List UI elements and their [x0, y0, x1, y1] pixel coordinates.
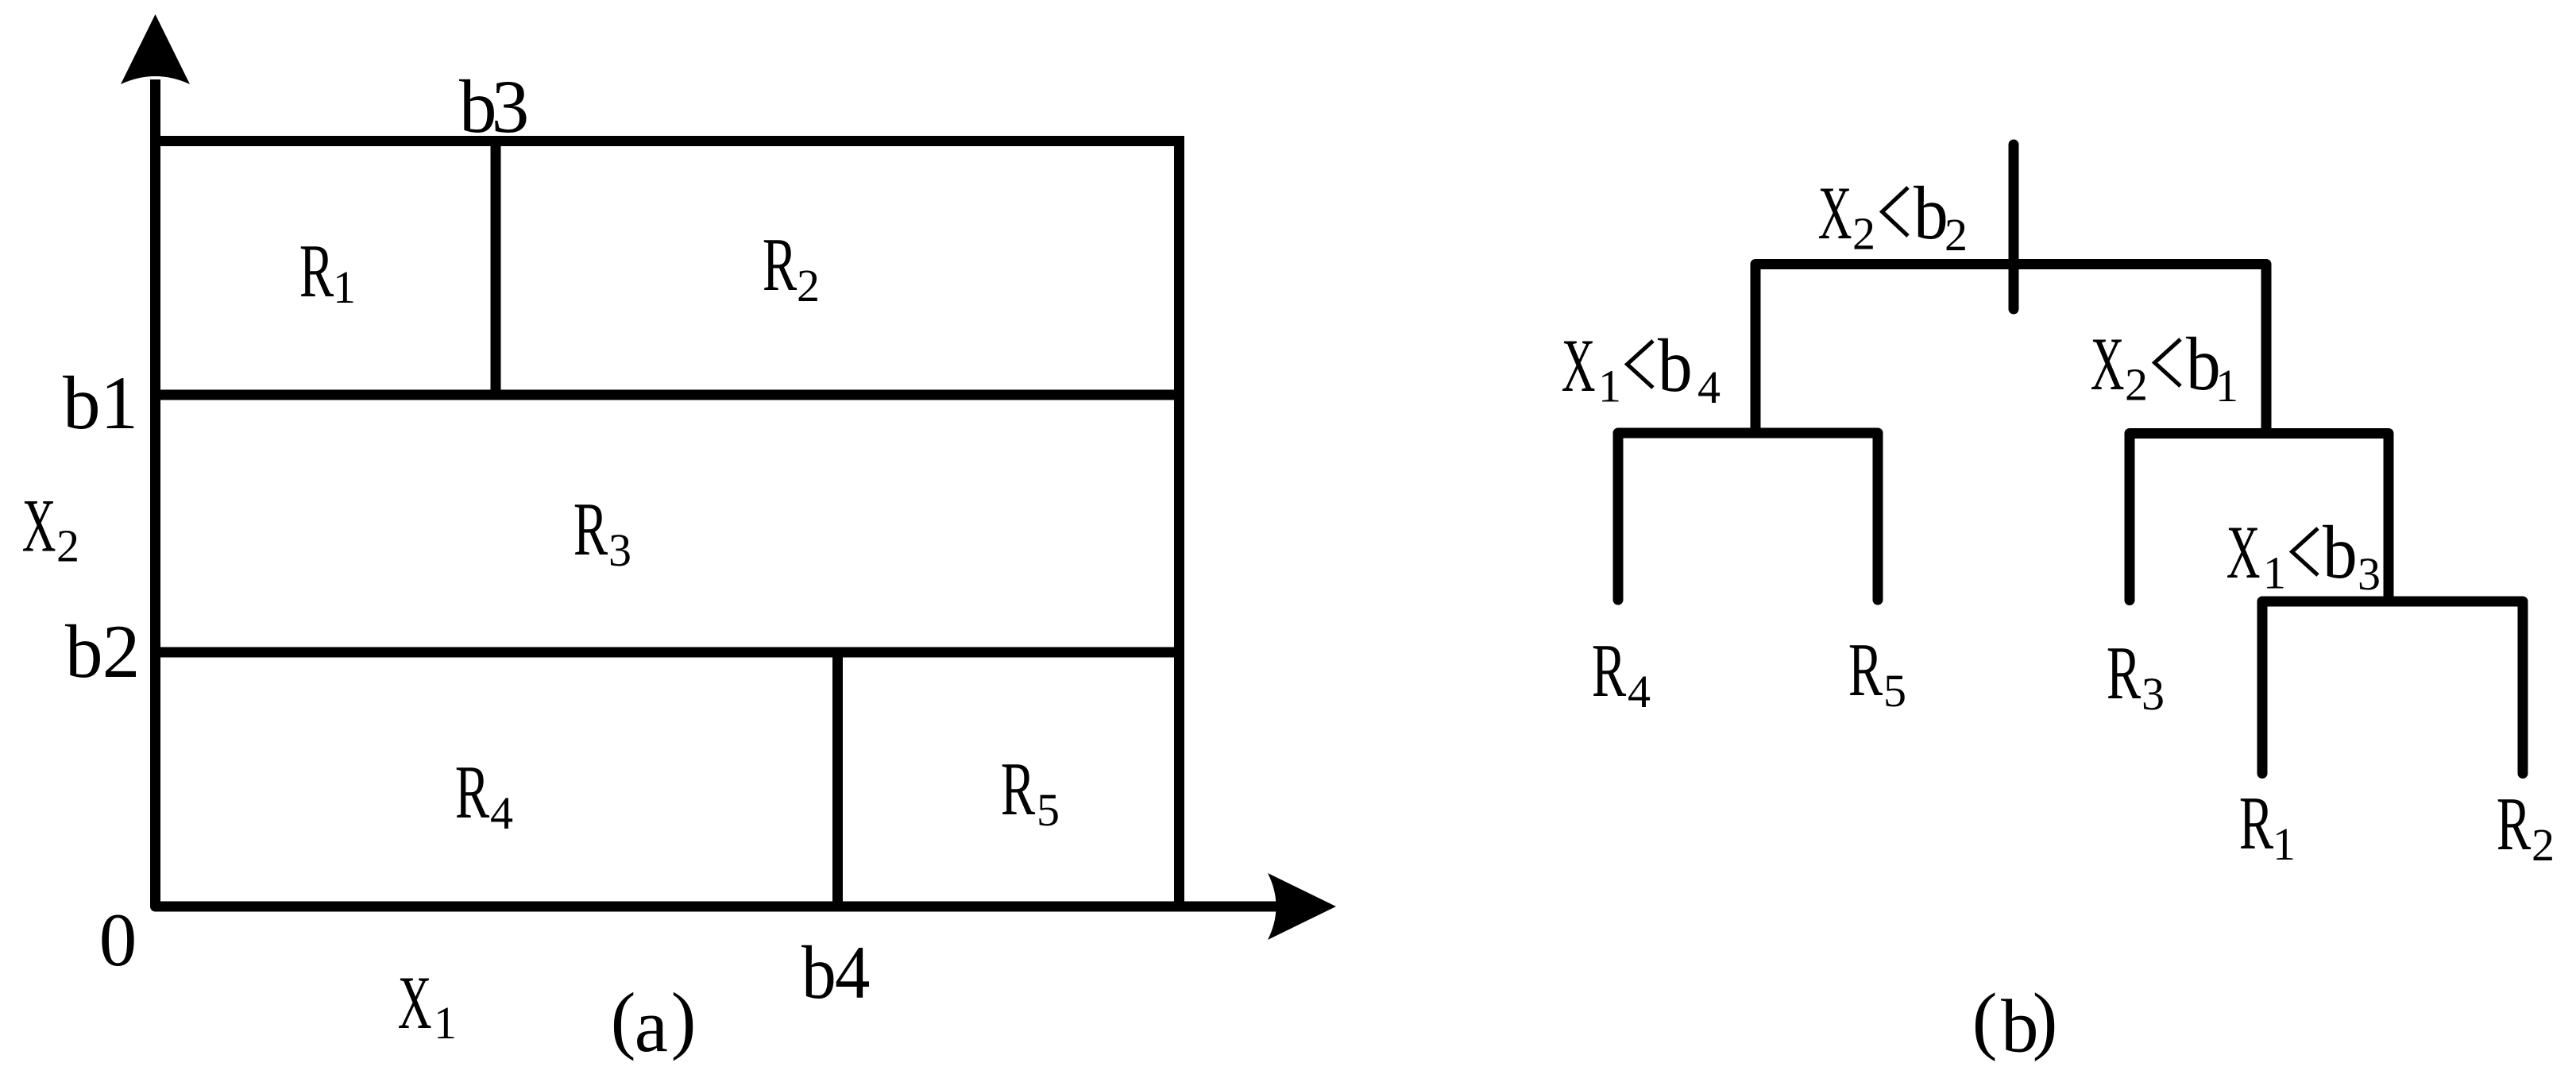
svg-text:R: R — [1592, 629, 1627, 713]
svg-text:R: R — [299, 230, 334, 313]
svg-text:1: 1 — [434, 997, 457, 1049]
svg-text:b: b — [65, 609, 103, 694]
svg-text:1: 1 — [1598, 361, 1621, 412]
svg-text:): ) — [671, 977, 697, 1061]
svg-text:5: 5 — [1883, 665, 1906, 717]
tree third-level bar X1&lt;b3 with leaf drops to R1 and R2 — [2262, 601, 2523, 774]
svg-text:X: X — [2091, 323, 2125, 407]
partition outer boundary: top edge and right edge — [156, 141, 1180, 907]
svg-text:4: 4 — [490, 787, 513, 839]
svg-text:4: 4 — [1628, 666, 1651, 717]
svg-text:5: 5 — [1037, 784, 1060, 836]
svg-text:(: ( — [611, 977, 636, 1061]
svg-text:R: R — [2497, 783, 2532, 866]
X2 axis (vertical) and X1 axis (horizontal) — [156, 79, 1281, 906]
svg-text:1: 1 — [2273, 818, 2296, 870]
svg-text:R: R — [1001, 748, 1036, 831]
svg-text:2: 2 — [2125, 359, 2148, 411]
tree first split bar X2&lt;b2 with left and right branch drops — [1755, 265, 2266, 434]
svg-text:2: 2 — [102, 609, 141, 694]
svg-text:3: 3 — [2142, 668, 2165, 720]
svg-text:(: ( — [1972, 978, 1998, 1062]
svg-text:b: b — [2323, 511, 2358, 594]
svg-text:b: b — [801, 931, 836, 1015]
svg-text:R: R — [1848, 628, 1883, 712]
svg-text:2: 2 — [797, 260, 820, 311]
svg-text:2: 2 — [2532, 819, 2555, 871]
svg-text:1: 1 — [333, 261, 356, 313]
svg-text:4: 4 — [1697, 361, 1721, 413]
tree second-level left bar X1&lt;b4 with leaf drops to R4 and R5 — [1618, 433, 1878, 600]
tree second-level right bar X2&lt;b1 with leaf drop to R3 and branch drop — [2130, 434, 2389, 602]
svg-text:b: b — [63, 361, 101, 445]
svg-text:1: 1 — [100, 361, 137, 445]
svg-text:X: X — [22, 484, 56, 568]
svg-text:3: 3 — [608, 524, 631, 576]
svg-text:0: 0 — [99, 898, 137, 982]
svg-text:3: 3 — [492, 64, 530, 149]
boundary line b1 (horizontal split) — [156, 390, 1180, 400]
svg-text:a: a — [635, 984, 668, 1068]
svg-text:2: 2 — [1945, 209, 1968, 261]
svg-text:2: 2 — [56, 520, 79, 572]
svg-text:): ) — [2033, 978, 2058, 1062]
svg-text:X: X — [2226, 511, 2261, 595]
svg-text:R: R — [574, 488, 608, 571]
svg-text:3: 3 — [2358, 548, 2381, 600]
svg-text:R: R — [2239, 782, 2274, 865]
X2 axis arrowhead (up) — [121, 14, 190, 84]
svg-text:X: X — [1818, 172, 1852, 256]
svg-text:b: b — [1658, 324, 1693, 408]
svg-text:X: X — [398, 961, 432, 1045]
svg-text:R: R — [455, 751, 490, 834]
svg-text:4: 4 — [835, 930, 870, 1014]
boundary line b3 (vertical split between R1 and R2) — [491, 141, 501, 396]
boundary line b4 (vertical split between R4 and R5) — [832, 652, 843, 906]
svg-text:1: 1 — [2215, 360, 2238, 412]
X1 axis arrowhead (right) — [1268, 873, 1336, 940]
svg-text:R: R — [763, 223, 798, 307]
svg-text:2: 2 — [1852, 208, 1875, 260]
svg-text:R: R — [2107, 632, 2142, 715]
svg-text:X: X — [1562, 324, 1596, 408]
boundary line b2 (horizontal split) — [156, 647, 1180, 658]
svg-text:b: b — [1914, 172, 1948, 255]
svg-text:1: 1 — [2263, 547, 2286, 599]
tree root edge (vertical through first split bar) — [2009, 145, 2019, 309]
